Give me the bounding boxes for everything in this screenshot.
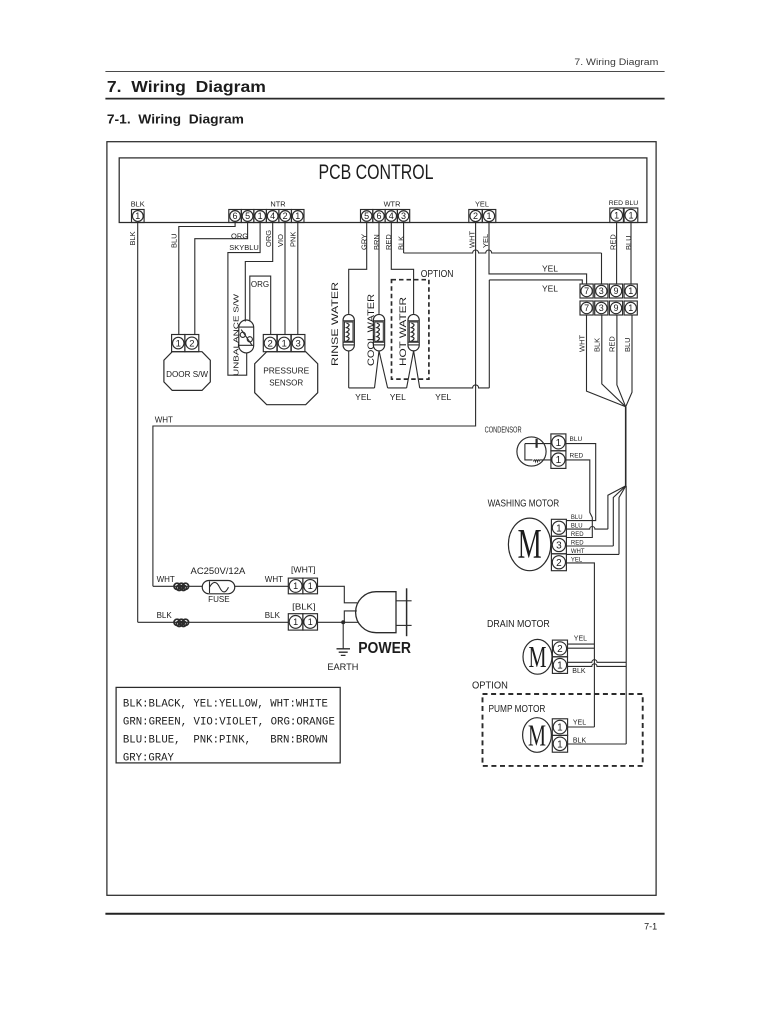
svg-text:PNK: PNK bbox=[289, 232, 298, 247]
svg-text:[WHT]: [WHT] bbox=[291, 565, 316, 575]
drain motor M2 body bbox=[523, 639, 552, 674]
svg-text:7-1. Wiring Diagram: 7-1. Wiring Diagram bbox=[107, 113, 244, 127]
wire YEL bus segment 2 bbox=[388, 387, 407, 389]
pressure sensor body octagon bbox=[255, 352, 318, 405]
svg-text:6: 6 bbox=[233, 211, 238, 221]
svg-text:9: 9 bbox=[613, 286, 618, 296]
svg-text:M: M bbox=[529, 639, 547, 674]
svg-text:RED: RED bbox=[571, 532, 584, 538]
svg-text:BLU: BLU bbox=[623, 337, 632, 352]
pressure sensor B1 pin 2 bbox=[263, 335, 277, 352]
svg-text:GRY:GRAY: GRY:GRAY bbox=[123, 752, 175, 764]
svg-text:ORG: ORG bbox=[264, 230, 273, 247]
wire hot valve legs to YEL bus bbox=[407, 351, 420, 388]
wire ORG NTR pin4 to unbalance switch top bbox=[245, 223, 272, 322]
svg-text:7. Wiring Diagram: 7. Wiring Diagram bbox=[107, 79, 266, 96]
wire YEL YEL pin1 to motor connector row1 pin7 bbox=[489, 223, 587, 285]
svg-text:4: 4 bbox=[389, 211, 394, 221]
wire BLK WTR pin3 to motor connector row1 pin3 with hops bbox=[403, 223, 405, 254]
svg-text:5: 5 bbox=[245, 211, 250, 221]
svg-text:BLU: BLU bbox=[570, 436, 583, 443]
earth wire bbox=[342, 622, 344, 649]
svg-text:OPTION: OPTION bbox=[472, 680, 508, 691]
svg-text:9: 9 bbox=[613, 303, 618, 313]
svg-text:1: 1 bbox=[556, 438, 562, 449]
svg-text:1: 1 bbox=[557, 723, 563, 734]
svg-text:7. Wiring Diagram: 7. Wiring Diagram bbox=[574, 57, 658, 67]
wire VIO NTR pin2 to pressure sensor pin1 bbox=[284, 223, 286, 335]
svg-text:7: 7 bbox=[584, 286, 589, 296]
svg-text:1: 1 bbox=[135, 211, 140, 221]
pump motor M3 body bbox=[523, 718, 552, 753]
wire BLK from CN-BLK down to power line filter bbox=[137, 223, 139, 623]
connector CN-RED pin 1 bbox=[610, 208, 624, 223]
svg-text:YEL: YEL bbox=[435, 392, 451, 402]
PCB CONTROL box U1 bbox=[119, 158, 647, 223]
wire WHT row mid segment bbox=[235, 585, 289, 587]
wire BLK row left segment bbox=[138, 621, 289, 623]
svg-text:HOT WATER: HOT WATER bbox=[398, 296, 408, 366]
washing motor M1 body bbox=[508, 518, 550, 571]
power plug prong lower bbox=[396, 624, 412, 626]
connector CN-BLK pin 1 bbox=[132, 210, 145, 223]
fuse F1 body bbox=[202, 581, 235, 594]
svg-text:1: 1 bbox=[176, 339, 181, 350]
svg-text:1: 1 bbox=[628, 210, 633, 220]
svg-text:1: 1 bbox=[295, 211, 300, 221]
svg-text:WTR: WTR bbox=[384, 200, 401, 209]
svg-text:EARTH: EARTH bbox=[327, 662, 358, 673]
door switch S1 pin 1 bbox=[172, 335, 185, 352]
harness fan-out to washing motor BLU bbox=[608, 486, 626, 529]
power plug P1 body bbox=[356, 592, 396, 633]
wire BRN WTR pin6 to cool water valve bbox=[378, 223, 380, 314]
svg-text:BLK: BLK bbox=[572, 668, 586, 675]
valve L2 cool water bbox=[373, 314, 384, 351]
condensor pin 1 lower bbox=[551, 451, 566, 469]
svg-text:1: 1 bbox=[628, 303, 633, 313]
svg-text:BLU: BLU bbox=[170, 233, 179, 248]
svg-text:RINSE WATER: RINSE WATER bbox=[330, 281, 340, 366]
pressure sensor B1 pin 1 bbox=[277, 335, 291, 352]
svg-text:BLU:BLUE, PNK:PINK, BRN:BRO: BLU:BLUE, PNK:PINK, BRN:BROWN bbox=[123, 734, 328, 746]
condensor pin 1 upper bbox=[551, 434, 566, 451]
svg-text:1: 1 bbox=[614, 210, 619, 220]
svg-text:RED: RED bbox=[609, 200, 623, 207]
svg-text:BLK:BLACK, YEL:YELLOW, WHT:WHI: BLK:BLACK, YEL:YELLOW, WHT:WHITE bbox=[123, 698, 328, 710]
harness trunk wire bbox=[625, 407, 627, 486]
svg-text:YEL: YEL bbox=[574, 635, 587, 642]
wire YEL branch to motor connector row1 pin7 second bbox=[489, 280, 582, 284]
svg-text:GRN:GREEN, VIO:VIOLET, ORG:ORA: GRN:GREEN, VIO:VIOLET, ORG:ORANGE bbox=[123, 716, 335, 728]
wire drain pin1 stub upper with hop bbox=[568, 660, 627, 663]
harness wire RED converging bbox=[617, 315, 626, 407]
footer rule bbox=[105, 913, 664, 915]
svg-text:POWER: POWER bbox=[358, 640, 411, 657]
OPTION dashed box hot water valve bbox=[392, 280, 429, 379]
motor harness connector 2x4 pins 7 3 9 1 bbox=[580, 284, 637, 315]
svg-text:3: 3 bbox=[556, 541, 562, 552]
connector [BLK] pin 1 left bbox=[288, 614, 303, 630]
wire SKYBLU NTR pin1 to unbalance switch bottom bbox=[228, 223, 260, 376]
wire RED CN-RED to motor connector row1 pin9 bbox=[616, 223, 618, 285]
drain motor pin 2 bbox=[552, 640, 567, 657]
wire BLK step into plug upper contact bbox=[344, 611, 357, 622]
connector CN-NTR pins 6 5 1 4 2 1 bbox=[229, 210, 304, 223]
power plug prong upper bbox=[396, 600, 412, 602]
svg-text:BLK: BLK bbox=[265, 611, 281, 620]
valve L3 hot water bbox=[408, 314, 419, 350]
svg-text:2: 2 bbox=[557, 644, 563, 655]
svg-text:1: 1 bbox=[308, 617, 313, 627]
svg-text:PCB CONTROL: PCB CONTROL bbox=[319, 161, 434, 184]
wire GRY WTR pin5 to rinse water valve bbox=[349, 223, 367, 314]
OPTION dashed box pump motor bbox=[483, 694, 643, 766]
svg-text:M: M bbox=[518, 522, 542, 568]
svg-text:YEL: YEL bbox=[355, 392, 371, 402]
svg-text:NTR: NTR bbox=[270, 200, 285, 209]
wire drain pin1 stub lower with hop bbox=[568, 664, 627, 667]
svg-text:YEL: YEL bbox=[390, 392, 406, 402]
svg-text:1: 1 bbox=[557, 661, 563, 672]
svg-text:CONDENSOR: CONDENSOR bbox=[485, 424, 522, 434]
junction dot earth tap bbox=[341, 620, 345, 624]
svg-text:3: 3 bbox=[295, 339, 300, 350]
wire cool valve legs to YEL bus bbox=[375, 351, 388, 388]
svg-text:SENSOR: SENSOR bbox=[269, 378, 303, 388]
wire YEL bus segment 1 bbox=[349, 387, 375, 389]
svg-text:3: 3 bbox=[401, 211, 406, 221]
connector CN-WTR pins 5 6 4 3 bbox=[361, 210, 410, 223]
svg-text:2: 2 bbox=[473, 211, 478, 221]
svg-text:BLK: BLK bbox=[573, 737, 587, 744]
harness trunk BLK down to drain and pump motors bbox=[625, 486, 627, 744]
svg-text:1: 1 bbox=[557, 739, 563, 750]
svg-text:WHT: WHT bbox=[265, 575, 283, 584]
wire YEL bus segment 3 with hop over WHT bbox=[420, 385, 490, 388]
connector CN-BLU pin 1 bbox=[624, 208, 638, 223]
svg-text:2: 2 bbox=[267, 339, 272, 350]
svg-text:BLK: BLK bbox=[157, 611, 173, 620]
pressure sensor B1 pin 3 bbox=[291, 335, 305, 352]
valve L1 rinse water bbox=[343, 314, 354, 351]
harness fan-out to washing motor WHT bbox=[619, 486, 626, 555]
svg-text:YEL: YEL bbox=[573, 719, 586, 726]
wire BLU CN-BLU to motor connector row1 pin1 bbox=[630, 223, 632, 285]
svg-text:VIO: VIO bbox=[276, 234, 285, 247]
svg-text:5: 5 bbox=[364, 211, 369, 221]
svg-text:7: 7 bbox=[584, 303, 589, 313]
svg-text:YEL: YEL bbox=[542, 264, 558, 274]
svg-text:OPTION: OPTION bbox=[421, 269, 454, 280]
wire drain pin2 stub lower bbox=[568, 647, 595, 649]
svg-text:YEL: YEL bbox=[475, 200, 489, 209]
svg-text:1: 1 bbox=[293, 617, 298, 627]
diagram outer frame bbox=[107, 142, 656, 896]
svg-text:FUSE: FUSE bbox=[208, 594, 230, 604]
svg-text:1: 1 bbox=[258, 211, 263, 221]
wire pump pin1 YEL stub bbox=[568, 726, 595, 728]
wire washing motor row4 RED bbox=[566, 545, 613, 547]
wire RED condensor to washing motor pin3 bbox=[566, 460, 592, 538]
svg-text:DOOR S/W: DOOR S/W bbox=[166, 370, 208, 379]
line filter coil WHT bbox=[174, 583, 180, 589]
drain motor pin 1 bbox=[552, 657, 567, 674]
svg-text:BLK: BLK bbox=[131, 200, 145, 209]
wire washing motor row6 YEL to drain and pump bbox=[566, 563, 594, 727]
legend box bbox=[116, 687, 340, 763]
door switch S1 pin 2 bbox=[185, 335, 199, 352]
wire washing motor row5 WHT bbox=[566, 553, 619, 555]
unbalance switch S2 body bbox=[239, 320, 254, 353]
svg-text:WHT: WHT bbox=[577, 335, 586, 352]
harness wire BLK converging bbox=[602, 315, 626, 407]
washing motor pin 3 bbox=[551, 536, 566, 554]
condensor C1 body bbox=[517, 437, 551, 466]
wire ORG NTR pin5 to door switch pin2 bbox=[195, 223, 248, 335]
line filter coil BLK bbox=[174, 619, 180, 625]
connector [BLK] pin 1 right bbox=[303, 614, 318, 630]
svg-text:2: 2 bbox=[556, 558, 562, 569]
washing motor pin 2 bbox=[551, 554, 566, 571]
svg-text:WHT: WHT bbox=[155, 415, 173, 424]
svg-text:BLK: BLK bbox=[128, 231, 137, 245]
svg-text:1: 1 bbox=[556, 455, 562, 466]
svg-text:1: 1 bbox=[556, 523, 562, 534]
pump motor pin 1 lower bbox=[552, 735, 567, 752]
svg-text:1: 1 bbox=[487, 211, 492, 221]
svg-text:M: M bbox=[528, 717, 546, 752]
connector [WHT] pin 1 left bbox=[288, 578, 303, 594]
wire WHT to power plug bbox=[318, 586, 358, 603]
svg-text:PRESSURE: PRESSURE bbox=[263, 366, 309, 376]
wire drain pin2 stub upper bbox=[568, 643, 595, 645]
svg-text:2: 2 bbox=[283, 211, 288, 221]
wire pump pin1 BLK stub bbox=[568, 743, 627, 745]
wire PNK NTR pin1 to pressure sensor pin3 bbox=[297, 223, 299, 335]
svg-text:6: 6 bbox=[376, 211, 381, 221]
header rule top bbox=[105, 71, 664, 73]
wire ORG unbalance switch top to pressure sensor pin2 bbox=[250, 276, 271, 334]
wire BLK to power plug with earth junction bbox=[318, 621, 359, 623]
wire WHT YEL pin2 down-left to fuse line bbox=[153, 223, 476, 587]
svg-text:2: 2 bbox=[189, 339, 194, 350]
svg-text:BLU: BLU bbox=[571, 515, 583, 521]
svg-text:AC250V/12A: AC250V/12A bbox=[191, 566, 246, 576]
svg-text:[BLK]: [BLK] bbox=[292, 601, 315, 611]
wire YEL branch down to valve common bus bbox=[488, 280, 490, 388]
pump motor pin 1 upper bbox=[552, 719, 567, 736]
header rule under section title bbox=[105, 98, 664, 100]
door switch S1 body octagon bbox=[164, 352, 210, 391]
svg-text:PUMP MOTOR: PUMP MOTOR bbox=[489, 704, 546, 715]
power plug blade bar bbox=[406, 588, 408, 636]
svg-text:7-1: 7-1 bbox=[644, 922, 657, 932]
svg-text:3: 3 bbox=[599, 303, 604, 313]
wire washing motor row2 BLU with hop bbox=[566, 526, 608, 529]
svg-text:RED: RED bbox=[608, 336, 617, 352]
svg-text:WHT: WHT bbox=[157, 575, 175, 584]
svg-text:RED: RED bbox=[570, 452, 584, 459]
svg-text:3: 3 bbox=[599, 286, 604, 296]
svg-text:COOL WATER: COOL WATER bbox=[366, 293, 376, 366]
wire WHT row left segment bbox=[153, 585, 202, 587]
wire rinse valve to YEL bus bbox=[348, 351, 350, 388]
connector [WHT] pin 1 right bbox=[303, 578, 318, 594]
wire RED WTR pin4 to hot water valve bbox=[391, 223, 413, 314]
svg-text:1: 1 bbox=[281, 339, 286, 350]
harness wire BLU converging bbox=[626, 315, 632, 407]
svg-text:WASHING MOTOR: WASHING MOTOR bbox=[488, 499, 560, 510]
harness wire WHT converging bbox=[587, 315, 626, 407]
connector CN-YEL pins 2 1 bbox=[469, 210, 496, 223]
wire BLU NTR pin6 to door switch pin1 bbox=[179, 223, 235, 335]
washing motor pin 1 bbox=[551, 519, 566, 536]
wire BLU condensor to washing motor pin1 bbox=[566, 444, 596, 521]
svg-text:1: 1 bbox=[308, 581, 313, 591]
svg-text:BLK: BLK bbox=[592, 338, 601, 352]
svg-text:DRAIN MOTOR: DRAIN MOTOR bbox=[487, 618, 550, 630]
earth ground symbol bbox=[337, 649, 351, 656]
svg-text:BLU: BLU bbox=[625, 200, 638, 207]
svg-text:YEL: YEL bbox=[542, 284, 558, 294]
svg-text:SKYBLU: SKYBLU bbox=[229, 243, 259, 252]
svg-text:1: 1 bbox=[628, 286, 633, 296]
harness fan-out to washing motor RED bbox=[613, 486, 626, 546]
svg-text:1: 1 bbox=[293, 581, 298, 591]
svg-text:ORG: ORG bbox=[251, 280, 269, 289]
svg-text:4: 4 bbox=[270, 211, 275, 221]
